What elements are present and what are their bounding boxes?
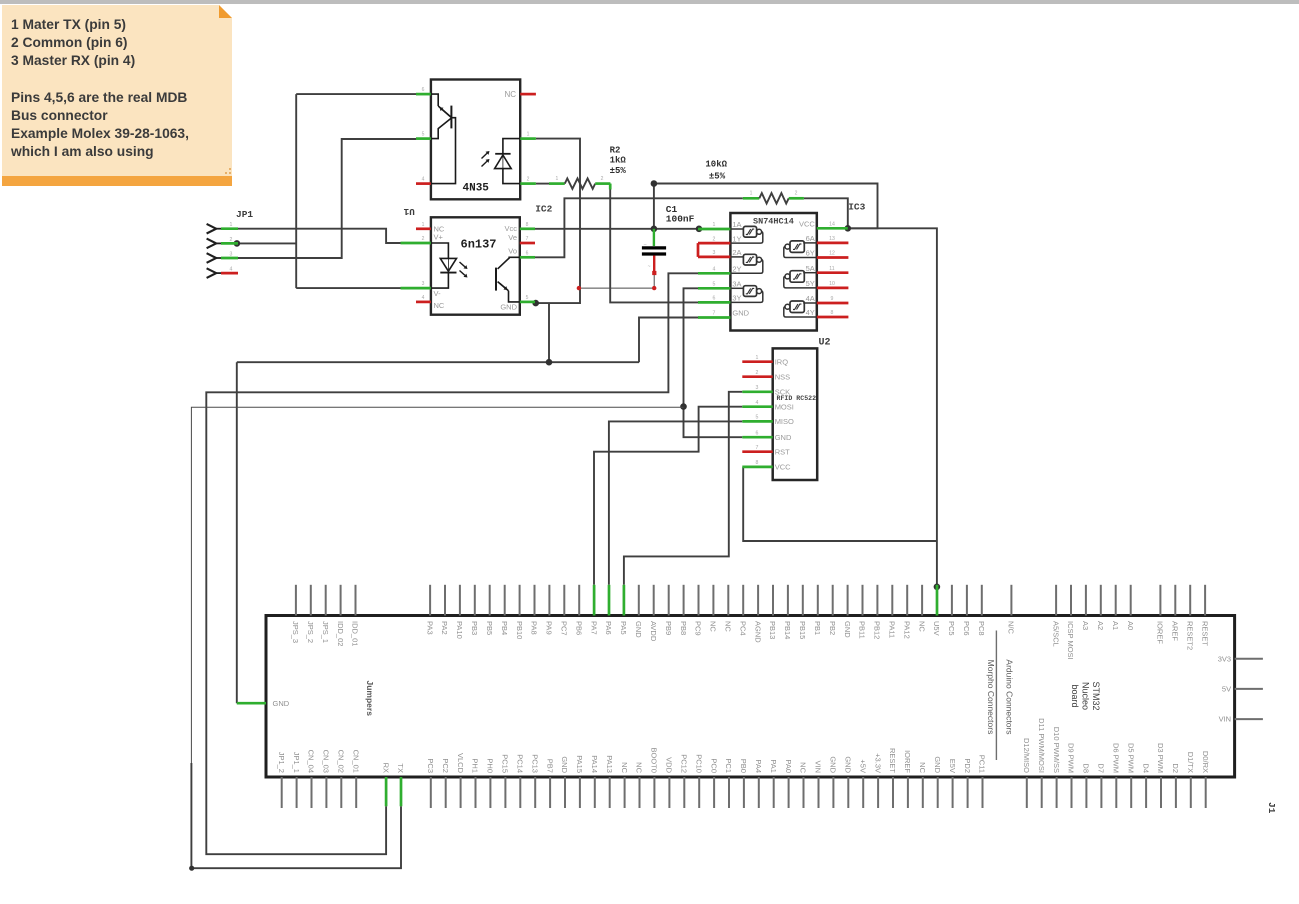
svg-text:PA13: PA13 xyxy=(605,755,614,773)
svg-text:J1: J1 xyxy=(1266,802,1277,814)
svg-text:STM32: STM32 xyxy=(1091,681,1101,710)
svg-text:8: 8 xyxy=(756,460,759,466)
label SN74HC14 value xyxy=(753,216,794,226)
wire net U2 MOSI to board PA7 xyxy=(594,407,742,585)
svg-text:Vcc: Vcc xyxy=(504,224,517,233)
svg-text:Morpho Connectors: Morpho Connectors xyxy=(986,660,996,735)
svg-text:GND: GND xyxy=(843,621,852,638)
wire net GND: 6n137 GND - SN74 GND - board GND xyxy=(237,303,698,703)
junction dot TX riser corner xyxy=(189,866,194,871)
junction dot SN74 1A node xyxy=(696,226,703,233)
svg-text:AREF: AREF xyxy=(1171,621,1180,641)
svg-text:PH0: PH0 xyxy=(486,758,495,773)
svg-text:E5V: E5V xyxy=(948,759,957,773)
svg-text:4N35: 4N35 xyxy=(463,183,490,195)
svg-text:NC: NC xyxy=(504,90,516,99)
svg-text:PA10: PA10 xyxy=(455,621,464,639)
svg-text:6: 6 xyxy=(422,87,425,93)
svg-text:CN_02: CN_02 xyxy=(337,750,346,773)
svg-text:V-: V- xyxy=(434,289,442,298)
svg-text:TX: TX xyxy=(396,763,405,773)
svg-text:PA9: PA9 xyxy=(545,621,554,635)
svg-text:1A: 1A xyxy=(732,220,741,229)
resistor R2 xyxy=(549,176,610,189)
svg-text:4A: 4A xyxy=(806,294,815,303)
svg-text:6Y: 6Y xyxy=(806,249,815,258)
opto-isolator 4N35 xyxy=(416,80,536,200)
thin unrouted wire C1 pin2 xyxy=(577,271,657,290)
svg-text:A0: A0 xyxy=(1126,621,1135,630)
svg-text:A2: A2 xyxy=(1096,621,1105,630)
svg-text:GND: GND xyxy=(829,756,838,773)
svg-text:VIN: VIN xyxy=(1219,715,1232,724)
svg-text:RST: RST xyxy=(775,447,790,456)
svg-text:AGND: AGND xyxy=(753,621,762,643)
svg-text:IDD_01: IDD_01 xyxy=(351,621,360,646)
svg-text:PC9: PC9 xyxy=(694,621,703,636)
junction dot U5V stub xyxy=(934,584,941,591)
svg-text:7: 7 xyxy=(526,236,529,242)
label U1 (rotated) xyxy=(403,206,415,217)
svg-text:CN_01: CN_01 xyxy=(351,750,360,773)
label 10k ohm 5% xyxy=(705,160,727,182)
svg-text:PB1: PB1 xyxy=(813,621,822,635)
svg-text:D3 PWM: D3 PWM xyxy=(1156,743,1165,773)
svg-text:6: 6 xyxy=(526,250,529,256)
svg-text:board: board xyxy=(1070,684,1080,707)
svg-text:IOREF: IOREF xyxy=(903,750,912,773)
svg-text:±5%: ±5% xyxy=(709,171,726,181)
label 4N35 value xyxy=(463,183,490,195)
svg-text:MOSI: MOSI xyxy=(775,402,794,411)
svg-text:AVDD: AVDD xyxy=(649,621,658,642)
svg-text:NC: NC xyxy=(918,762,927,773)
svg-text:A5/SCL: A5/SCL xyxy=(1051,621,1060,647)
svg-text:GND: GND xyxy=(732,309,749,318)
svg-text:GND: GND xyxy=(933,756,942,773)
svg-text:D2: D2 xyxy=(1171,763,1180,773)
svg-text:1: 1 xyxy=(556,176,559,182)
svg-text:14: 14 xyxy=(829,222,835,228)
junction dot JP1 pin2 xyxy=(234,240,241,247)
svg-text:D9 PWM: D9 PWM xyxy=(1067,743,1076,773)
label U2 designator xyxy=(819,338,831,349)
label IC2 xyxy=(535,204,552,215)
svg-text:PB4: PB4 xyxy=(500,621,509,635)
svg-text:4: 4 xyxy=(713,267,716,273)
svg-text:PC6: PC6 xyxy=(962,621,971,636)
svg-text:9: 9 xyxy=(831,296,834,302)
svg-text:GND: GND xyxy=(560,756,569,773)
wire 6n137 Vo to 10k resistor pin1 xyxy=(535,198,743,257)
svg-text:2: 2 xyxy=(601,176,604,182)
svg-text:11: 11 xyxy=(829,266,834,272)
svg-text:5: 5 xyxy=(422,132,425,138)
svg-text:GND: GND xyxy=(775,433,792,442)
svg-text:1: 1 xyxy=(230,222,233,228)
junction dot 6n137 GND pin xyxy=(532,300,539,307)
wire net U2 MISO to board PA6 xyxy=(609,421,742,584)
svg-text:5: 5 xyxy=(526,295,529,301)
svg-text:N/C: N/C xyxy=(1007,621,1016,635)
svg-text:PC2: PC2 xyxy=(441,758,450,773)
svg-text:PA2: PA2 xyxy=(440,621,449,635)
svg-text:PA12: PA12 xyxy=(902,621,911,639)
svg-text:PA1: PA1 xyxy=(769,759,778,773)
svg-text:RX: RX xyxy=(381,763,390,773)
svg-text:IC2: IC2 xyxy=(535,204,552,215)
svg-text:U5V: U5V xyxy=(932,621,941,636)
svg-text:100nF: 100nF xyxy=(666,213,695,224)
svg-text:6: 6 xyxy=(713,296,716,302)
label C1 100nF xyxy=(666,204,695,225)
svg-text:4: 4 xyxy=(422,177,425,183)
wire R2 pin2 to SN74HC14 3Y xyxy=(610,184,698,303)
svg-text:Jumpers: Jumpers xyxy=(365,681,375,717)
svg-text:6: 6 xyxy=(756,430,759,436)
wire 4N35 LED cathode to R2 pin1 xyxy=(536,183,549,185)
junction dot VCC node above C1 xyxy=(651,180,658,187)
svg-text:JP1_2: JP1_2 xyxy=(277,752,286,773)
svg-text:4: 4 xyxy=(422,295,425,301)
svg-text:2A: 2A xyxy=(732,248,741,257)
junction dot GND rail xyxy=(546,359,553,366)
svg-text:2: 2 xyxy=(713,236,716,242)
svg-text:VDD: VDD xyxy=(665,757,674,773)
svg-text:PB11: PB11 xyxy=(858,621,867,639)
svg-text:PB3: PB3 xyxy=(470,621,479,635)
capacitor C1 xyxy=(642,229,666,272)
svg-text:PC14: PC14 xyxy=(516,754,525,773)
svg-text:PA15: PA15 xyxy=(575,755,584,773)
svg-text:1kΩ: 1kΩ xyxy=(610,156,627,166)
svg-text:+3.3V: +3.3V xyxy=(873,753,882,773)
svg-text:5Y: 5Y xyxy=(806,279,815,288)
thin wire 3A net to TX riser xyxy=(191,407,683,763)
wire net VCC: 6n137 Vcc - C1 - SN74 1A - R2 top link xyxy=(535,184,937,587)
svg-text:2Y: 2Y xyxy=(732,265,741,274)
svg-text:NC: NC xyxy=(434,301,445,310)
svg-text:1: 1 xyxy=(422,222,425,228)
svg-text:Ve: Ve xyxy=(508,233,517,242)
junction dot C1 top xyxy=(651,226,658,233)
svg-text:NC: NC xyxy=(917,621,926,632)
svg-text:D1/TX: D1/TX xyxy=(1186,752,1195,773)
svg-text:3A: 3A xyxy=(732,280,741,289)
svg-text:12: 12 xyxy=(829,251,835,257)
svg-text:4: 4 xyxy=(756,400,759,406)
svg-text:U1: U1 xyxy=(403,206,415,217)
svg-text:8: 8 xyxy=(526,222,529,228)
svg-text:RFID RC522: RFID RC522 xyxy=(777,395,817,402)
svg-text:D11 PWM/MOSI: D11 PWM/MOSI xyxy=(1037,718,1046,773)
svg-text:PB13: PB13 xyxy=(768,621,777,639)
svg-text:RESET2: RESET2 xyxy=(1185,621,1194,650)
svg-text:D0/RX: D0/RX xyxy=(1201,751,1210,773)
svg-text:R2: R2 xyxy=(610,145,621,155)
svg-text:PC0: PC0 xyxy=(709,758,718,773)
connector JP1 xyxy=(207,209,254,278)
svg-text:GND: GND xyxy=(634,621,643,638)
svg-text:PC5: PC5 xyxy=(947,621,956,636)
svg-text:13: 13 xyxy=(829,236,835,242)
svg-text:U2: U2 xyxy=(819,338,831,349)
label 6n137 value xyxy=(461,238,497,252)
svg-text:3V3: 3V3 xyxy=(1218,654,1231,663)
svg-text:PD2: PD2 xyxy=(963,758,972,773)
svg-text:6n137: 6n137 xyxy=(461,238,497,252)
svg-text:10: 10 xyxy=(829,281,835,287)
wire net U2 SCK to board PA5 xyxy=(624,392,742,585)
svg-text:PB9: PB9 xyxy=(664,621,673,635)
svg-text:MISO: MISO xyxy=(775,417,794,426)
svg-text:D8: D8 xyxy=(1082,763,1091,773)
svg-text:1: 1 xyxy=(527,132,530,138)
svg-text:NC: NC xyxy=(799,762,808,773)
svg-text:NC: NC xyxy=(709,621,718,632)
svg-text:VLCD: VLCD xyxy=(456,753,465,774)
svg-text:NC: NC xyxy=(635,762,644,773)
svg-text:IDD_02: IDD_02 xyxy=(336,621,345,646)
svg-text:PA11: PA11 xyxy=(888,621,897,638)
svg-text:PC8: PC8 xyxy=(977,621,986,636)
svg-text:Arduino Connectors: Arduino Connectors xyxy=(1005,659,1015,734)
svg-text:2: 2 xyxy=(230,237,233,243)
svg-text:PA6: PA6 xyxy=(604,621,613,635)
svg-text:CN_03: CN_03 xyxy=(322,750,331,773)
svg-text:10kΩ: 10kΩ xyxy=(705,160,727,170)
svg-text:PB7: PB7 xyxy=(545,759,554,773)
svg-text:PA7: PA7 xyxy=(589,621,598,635)
svg-text:PB10: PB10 xyxy=(515,621,524,639)
svg-text:GND: GND xyxy=(273,699,290,708)
svg-text:PA5: PA5 xyxy=(619,621,628,635)
svg-text:1: 1 xyxy=(750,191,753,197)
resistor 10k xyxy=(743,191,804,204)
label R2 1k ohm 5% xyxy=(610,145,627,176)
svg-text:PC7: PC7 xyxy=(560,621,569,636)
svg-text:5A: 5A xyxy=(806,264,815,273)
svg-text:IOREF: IOREF xyxy=(1156,621,1165,644)
svg-text:Nucleo: Nucleo xyxy=(1081,682,1091,710)
svg-text:2: 2 xyxy=(527,177,530,183)
svg-text:RESET: RESET xyxy=(888,748,897,773)
svg-text:PA0: PA0 xyxy=(784,759,793,773)
svg-text:1: 1 xyxy=(756,355,759,361)
svg-text:JPS_3: JPS_3 xyxy=(291,621,300,643)
svg-text:PB6: PB6 xyxy=(574,621,583,635)
wire TX riser to board TX xyxy=(191,763,401,868)
svg-text:GND: GND xyxy=(844,756,853,773)
svg-text:3: 3 xyxy=(422,281,425,287)
svg-text:2: 2 xyxy=(756,370,759,376)
svg-text:PC15: PC15 xyxy=(501,754,510,773)
svg-text:JP1_1: JP1_1 xyxy=(292,752,301,773)
svg-text:3Y: 3Y xyxy=(732,294,741,303)
svg-text:6A: 6A xyxy=(806,234,815,243)
svg-text:3: 3 xyxy=(230,252,233,258)
junction dot SN74 VCC / 10k resistor xyxy=(845,225,852,232)
svg-text:4Y: 4Y xyxy=(806,308,815,317)
svg-text:4: 4 xyxy=(230,267,233,273)
svg-text:PC12: PC12 xyxy=(680,754,689,773)
svg-text:PA3: PA3 xyxy=(425,621,434,635)
svg-text:D6 PWM: D6 PWM xyxy=(1112,743,1121,773)
svg-text:PB12: PB12 xyxy=(873,621,882,639)
label IC3 xyxy=(848,202,865,213)
wire net JP1-2 / 4N35 emitter / 6n137 V- xyxy=(238,94,416,288)
svg-text:CN_04: CN_04 xyxy=(307,750,316,773)
svg-text:1: 1 xyxy=(713,222,716,228)
wire net JP1-3 to 4N35 pin2 xyxy=(238,139,416,258)
svg-text:1Y: 1Y xyxy=(732,234,741,243)
svg-text:±5%: ±5% xyxy=(610,166,627,176)
svg-text:PC1: PC1 xyxy=(724,758,733,773)
svg-text:PB5: PB5 xyxy=(485,621,494,635)
svg-text:PB2: PB2 xyxy=(828,621,837,635)
svg-text:D7: D7 xyxy=(1097,763,1106,773)
svg-text:8: 8 xyxy=(831,310,834,316)
svg-text:GND: GND xyxy=(500,303,517,312)
svg-text:3: 3 xyxy=(756,385,759,391)
svg-text:JPS_1: JPS_1 xyxy=(321,621,330,643)
svg-text:D10 PWM/SS: D10 PWM/SS xyxy=(1052,727,1061,773)
svg-text:PC10: PC10 xyxy=(694,754,703,773)
svg-text:NC: NC xyxy=(620,762,629,773)
svg-text:NC: NC xyxy=(724,621,733,632)
svg-text:PC4: PC4 xyxy=(738,621,747,636)
svg-text:JPS_2: JPS_2 xyxy=(306,621,315,643)
svg-text:PC11: PC11 xyxy=(978,755,987,773)
wire net JP1-1 to 6n137 V+ xyxy=(238,229,401,243)
svg-text:PA14: PA14 xyxy=(590,755,599,773)
opto-isolator U1 6n137 xyxy=(401,217,536,314)
svg-text:IRQ: IRQ xyxy=(775,357,789,366)
wire U2 VCC to U5V rail xyxy=(743,467,937,541)
wire net SN74 3A / U2 GND xyxy=(684,288,743,437)
svg-text:D4: D4 xyxy=(1141,763,1150,773)
svg-text:Vo: Vo xyxy=(508,247,517,256)
svg-text:BOOT0: BOOT0 xyxy=(650,748,659,773)
label RFID RC522 value xyxy=(777,395,817,402)
svg-text:A3: A3 xyxy=(1081,621,1090,630)
sticky note annotation xyxy=(2,5,232,186)
svg-text:VCC: VCC xyxy=(775,463,791,472)
svg-text:5V: 5V xyxy=(1222,685,1231,694)
svg-text:–: – xyxy=(644,242,647,248)
svg-text:PB15: PB15 xyxy=(798,621,807,639)
svg-text:7: 7 xyxy=(756,445,759,451)
svg-text:PB14: PB14 xyxy=(783,621,792,639)
svg-text:PA4: PA4 xyxy=(754,759,763,773)
svg-text:3: 3 xyxy=(713,250,716,256)
svg-text:PB0: PB0 xyxy=(739,759,748,773)
IC3 SN74HC14 hex schmitt inverter xyxy=(698,213,848,331)
module U2 RFID RC522 xyxy=(742,348,817,480)
svg-text:PB8: PB8 xyxy=(679,621,688,635)
svg-text:PC3: PC3 xyxy=(426,758,435,773)
svg-text:+5V: +5V xyxy=(858,759,867,773)
wire net SN74 2Y to board RX xyxy=(206,273,698,854)
svg-text:ICSP MOSI: ICSP MOSI xyxy=(1066,621,1075,660)
svg-text:SN74HC14: SN74HC14 xyxy=(753,216,794,226)
svg-text:V+: V+ xyxy=(434,232,444,241)
svg-text:5: 5 xyxy=(713,282,716,288)
junction dot 3A net xyxy=(680,403,687,410)
svg-text:2: 2 xyxy=(422,236,425,242)
J1 STM32 Nucleo board xyxy=(237,585,1277,814)
svg-text:JP1: JP1 xyxy=(236,209,253,220)
svg-text:~: ~ xyxy=(648,264,651,270)
svg-text:D5 PWM: D5 PWM xyxy=(1126,743,1135,773)
svg-text:IC3: IC3 xyxy=(848,202,865,213)
svg-text:RESET: RESET xyxy=(1200,621,1209,646)
svg-text:2: 2 xyxy=(795,191,798,197)
svg-text:D12/MISO: D12/MISO xyxy=(1022,738,1031,773)
svg-text:VIN: VIN xyxy=(814,760,823,773)
svg-text:7: 7 xyxy=(713,311,716,317)
wire 4N35 LED anode to 6n137 GND node xyxy=(536,139,580,304)
svg-text:VCC: VCC xyxy=(799,220,815,229)
svg-text:PH1: PH1 xyxy=(471,758,480,773)
svg-text:A1: A1 xyxy=(1111,621,1120,630)
svg-text:5: 5 xyxy=(756,415,759,421)
svg-text:PC13: PC13 xyxy=(530,754,539,773)
svg-text:NSS: NSS xyxy=(775,372,790,381)
svg-text:PA8: PA8 xyxy=(530,621,539,635)
